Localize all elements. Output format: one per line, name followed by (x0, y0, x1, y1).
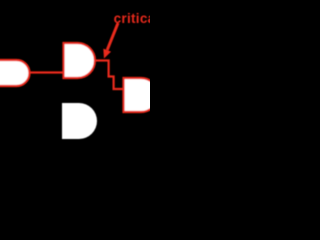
svg-text:critical: critical (114, 11, 150, 26)
